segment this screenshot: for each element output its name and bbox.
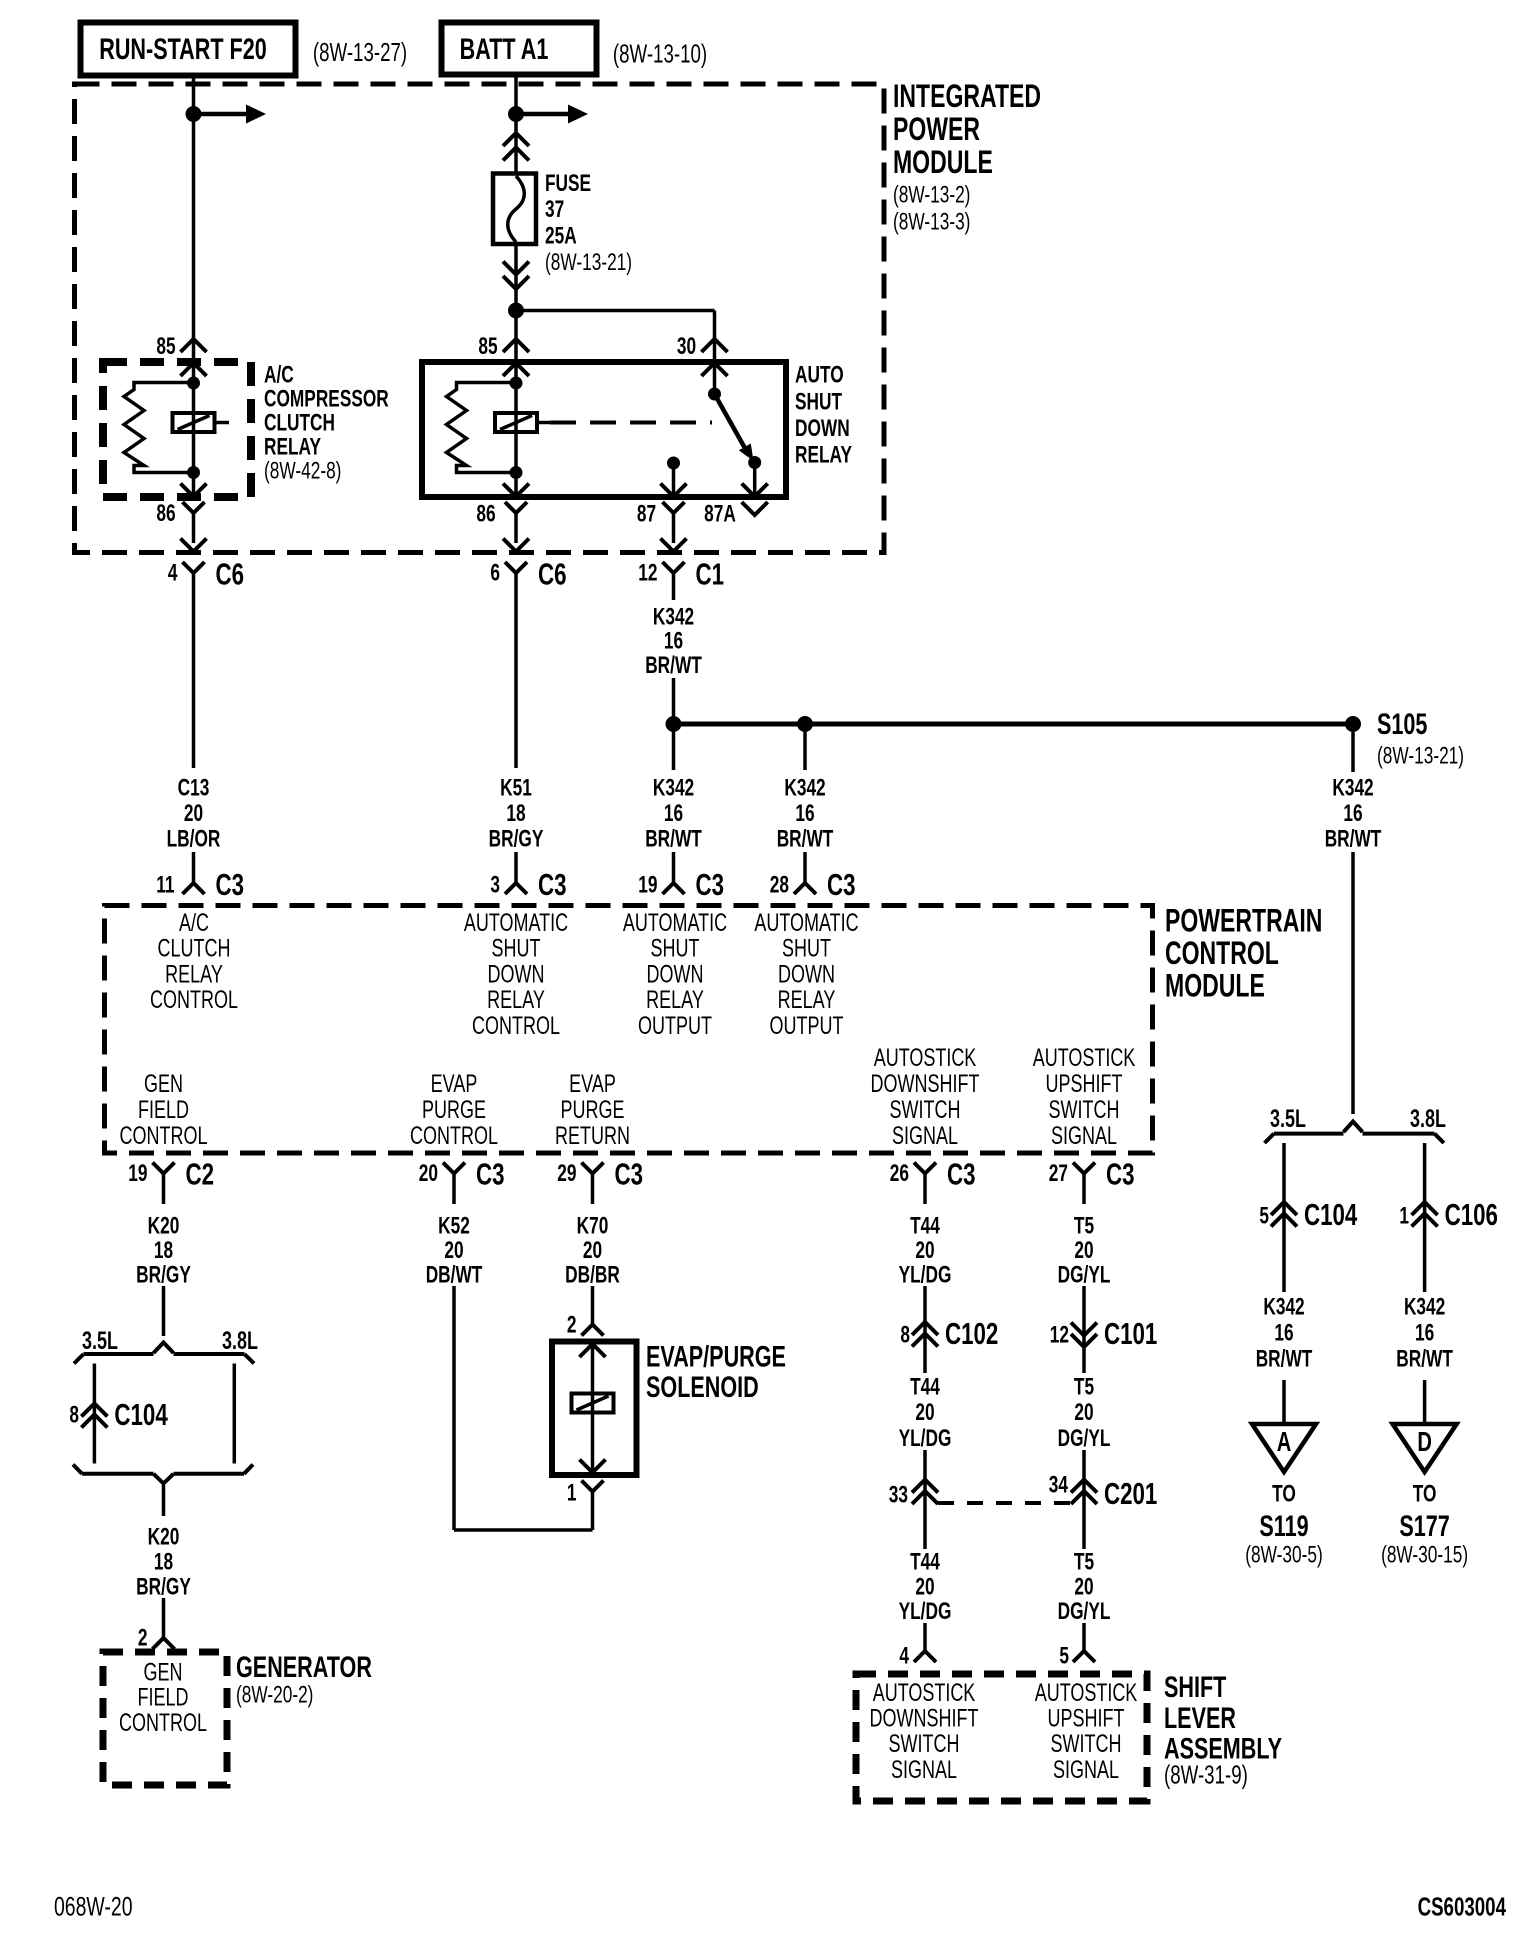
svg-text:20: 20	[1074, 1399, 1093, 1425]
svg-text:BR/GY: BR/GY	[136, 1574, 191, 1600]
pin 86 exit arrowhead	[503, 484, 529, 497]
svg-text:29: 29	[557, 1160, 576, 1186]
svg-text:20: 20	[444, 1237, 463, 1263]
A/C compressor clutch relay dashed box	[103, 362, 251, 497]
svg-text:CONTROL: CONTROL	[472, 1011, 560, 1040]
pin 86 connector (ASD)	[505, 502, 527, 513]
svg-text:INTEGRATED: INTEGRATED	[893, 78, 1041, 114]
pin 86 exit arrowhead	[181, 484, 207, 497]
svg-text:K52: K52	[438, 1213, 470, 1239]
svg-text:C3: C3	[216, 868, 245, 902]
off-page triangle A	[1252, 1424, 1316, 1472]
ASD coil wire	[514, 363, 518, 497]
svg-text:8: 8	[69, 1402, 79, 1428]
svg-text:8: 8	[900, 1322, 910, 1348]
auto shut down relay box	[422, 362, 786, 497]
wire K342 16 BR/WT branch 1	[672, 724, 676, 770]
svg-text:PURGE: PURGE	[561, 1095, 625, 1124]
svg-text:K51: K51	[500, 775, 532, 801]
svg-text:T44: T44	[910, 1374, 940, 1400]
svg-text:POWERTRAIN: POWERTRAIN	[1165, 903, 1322, 939]
svg-text:COMPRESSOR: COMPRESSOR	[264, 386, 389, 412]
svg-text:C104: C104	[114, 1398, 167, 1432]
switch arm with arrowhead	[715, 394, 747, 450]
wire from BATT A1 down through fuse to ASD relay pin 85	[514, 76, 518, 174]
svg-text:C3: C3	[476, 1157, 505, 1191]
svg-text:RELAY: RELAY	[264, 434, 321, 460]
wire ASD relay control: K51 18 BR/GY	[514, 600, 518, 768]
connector 8 C104	[81, 1403, 107, 1416]
junction node below fuse	[508, 303, 524, 319]
svg-text:12: 12	[638, 560, 657, 586]
svg-text:YL/DG: YL/DG	[899, 1262, 952, 1288]
svg-text:(8W-31-9): (8W-31-9)	[1164, 1759, 1248, 1789]
svg-text:C6: C6	[216, 557, 245, 591]
svg-text:RELAY: RELAY	[165, 959, 223, 988]
svg-text:RELAY: RELAY	[646, 985, 704, 1014]
svg-text:AUTO: AUTO	[795, 362, 844, 388]
svg-text:K70: K70	[577, 1213, 609, 1239]
svg-text:27: 27	[1049, 1160, 1068, 1186]
svg-text:RELAY: RELAY	[795, 442, 852, 468]
svg-text:C3: C3	[615, 1157, 644, 1191]
svg-text:T5: T5	[1074, 1374, 1094, 1400]
svg-text:T5: T5	[1074, 1549, 1094, 1575]
svg-text:C1: C1	[696, 557, 725, 591]
pin 87A chevron	[742, 502, 768, 515]
pin 87A node	[748, 456, 761, 469]
svg-text:6: 6	[490, 560, 500, 586]
solenoid coil	[572, 1394, 614, 1413]
svg-text:3.8L: 3.8L	[1410, 1104, 1446, 1133]
svg-text:A: A	[1277, 1427, 1292, 1458]
svg-text:FIELD: FIELD	[138, 1683, 189, 1712]
3.8L branch wire	[233, 1364, 237, 1464]
svg-text:YL/DG: YL/DG	[899, 1598, 952, 1624]
svg-text:3.8L: 3.8L	[222, 1326, 258, 1355]
svg-text:(8W-13-27): (8W-13-27)	[313, 37, 407, 67]
svg-text:(8W-30-5): (8W-30-5)	[1245, 1542, 1322, 1568]
svg-text:1: 1	[1399, 1203, 1409, 1229]
svg-text:MODULE: MODULE	[893, 144, 993, 180]
svg-text:1: 1	[567, 1480, 577, 1506]
svg-text:K20: K20	[148, 1524, 180, 1550]
svg-text:11: 11	[156, 872, 175, 898]
svg-text:28: 28	[770, 872, 789, 898]
svg-text:2: 2	[138, 1625, 148, 1651]
svg-text:C6: C6	[538, 557, 567, 591]
svg-text:16: 16	[1343, 800, 1362, 826]
svg-text:GENERATOR: GENERATOR	[236, 1649, 372, 1683]
svg-text:T44: T44	[910, 1213, 940, 1239]
svg-text:(8W-42-8): (8W-42-8)	[264, 458, 341, 484]
connector 33 C201	[912, 1480, 938, 1493]
svg-text:EVAP: EVAP	[431, 1069, 478, 1098]
svg-text:SWITCH: SWITCH	[889, 1729, 960, 1758]
svg-text:C106: C106	[1445, 1198, 1498, 1232]
svg-text:GEN: GEN	[144, 1069, 183, 1098]
svg-text:SOLENOID: SOLENOID	[646, 1369, 759, 1403]
svg-text:K342: K342	[653, 775, 694, 801]
svg-text:C3: C3	[827, 868, 856, 902]
svg-text:SWITCH: SWITCH	[1049, 1095, 1120, 1124]
relay coil wire	[192, 363, 196, 497]
solenoid coil wire	[591, 1342, 595, 1476]
wire from RUN-START F20 down to A/C relay pin 85	[192, 76, 196, 362]
svg-text:AUTOSTICK: AUTOSTICK	[873, 1678, 976, 1707]
svg-text:DOWN: DOWN	[488, 959, 545, 988]
pin 87 node	[667, 457, 680, 470]
svg-text:(8W-13-10): (8W-13-10)	[613, 38, 707, 68]
svg-text:DG/YL: DG/YL	[1058, 1425, 1111, 1451]
svg-text:DOWN: DOWN	[795, 415, 850, 441]
svg-text:CONTROL: CONTROL	[1165, 935, 1279, 971]
pin 87 connector	[663, 502, 685, 513]
wire K342 16 BR/WT branch 2	[803, 724, 807, 770]
splice bus wire to S105	[674, 722, 1354, 727]
svg-text:DB/WT: DB/WT	[426, 1262, 483, 1288]
svg-text:CONTROL: CONTROL	[119, 1708, 207, 1737]
arrow to other circuits	[194, 112, 249, 117]
svg-text:SWITCH: SWITCH	[890, 1095, 961, 1124]
coil-contact mechanical dashed link	[550, 421, 712, 425]
svg-text:5: 5	[1059, 1643, 1069, 1669]
svg-text:C3: C3	[947, 1157, 976, 1191]
svg-text:87A: 87A	[704, 501, 736, 527]
svg-text:12: 12	[1050, 1322, 1069, 1348]
svg-text:4: 4	[168, 560, 178, 586]
svg-text:EVAP: EVAP	[569, 1069, 616, 1098]
svg-text:C3: C3	[696, 868, 725, 902]
svg-text:K342: K342	[1332, 775, 1373, 801]
svg-text:UPSHIFT: UPSHIFT	[1048, 1704, 1125, 1733]
svg-text:C3: C3	[538, 868, 567, 902]
svg-text:A/C: A/C	[264, 362, 294, 388]
svg-text:16: 16	[664, 628, 683, 654]
pin 86 connector (A/C)	[183, 502, 205, 513]
relay coil	[173, 413, 215, 432]
svg-text:DOWNSHIFT: DOWNSHIFT	[871, 1069, 980, 1098]
svg-text:RETURN: RETURN	[555, 1121, 630, 1150]
connector double chevron below fuse	[503, 262, 529, 275]
svg-text:PURGE: PURGE	[422, 1095, 486, 1124]
connector 5 C104	[1271, 1202, 1297, 1215]
svg-text:C2: C2	[186, 1157, 215, 1191]
svg-text:DB/BR: DB/BR	[565, 1262, 620, 1288]
svg-text:25A: 25A	[545, 223, 577, 249]
svg-text:18: 18	[154, 1549, 173, 1575]
svg-text:20: 20	[1074, 1237, 1093, 1263]
svg-text:86: 86	[476, 501, 495, 527]
svg-text:(8W-13-21): (8W-13-21)	[545, 249, 632, 275]
svg-text:S119: S119	[1259, 1508, 1308, 1542]
svg-text:5: 5	[1259, 1203, 1269, 1229]
svg-text:CS603004: CS603004	[1418, 1891, 1507, 1921]
svg-text:BATT A1: BATT A1	[460, 31, 549, 65]
svg-text:BR/GY: BR/GY	[136, 1262, 191, 1288]
svg-text:POWER: POWER	[893, 111, 980, 147]
svg-text:BR/WT: BR/WT	[1256, 1346, 1313, 1372]
svg-text:(8W-13-3): (8W-13-3)	[893, 209, 970, 235]
integrated power module dashed box	[75, 84, 885, 553]
svg-text:K20: K20	[148, 1213, 180, 1239]
splice node 2	[797, 716, 813, 732]
svg-text:BR/WT: BR/WT	[1325, 826, 1382, 852]
evap/purge solenoid box	[552, 1342, 637, 1476]
wire branch to ASD pin 30	[516, 309, 715, 313]
svg-text:K342: K342	[1404, 1294, 1445, 1320]
svg-text:16: 16	[795, 800, 814, 826]
svg-text:18: 18	[154, 1237, 173, 1263]
svg-text:C201: C201	[1104, 1477, 1157, 1511]
svg-text:33: 33	[889, 1482, 908, 1508]
svg-text:(8W-20-2): (8W-20-2)	[236, 1682, 313, 1708]
connector 34 C201	[1071, 1480, 1097, 1493]
relay resistor	[124, 383, 194, 473]
wire A/C relay control: C13 20 LB/OR	[192, 600, 196, 768]
ASD resistor	[447, 383, 517, 473]
3.5L branch wire	[93, 1364, 97, 1464]
pin 30 entry arrowhead	[702, 363, 728, 376]
svg-text:SHUT: SHUT	[651, 934, 700, 963]
svg-text:20: 20	[419, 1160, 438, 1186]
svg-text:CONTROL: CONTROL	[150, 985, 238, 1014]
connector 1 C106	[1412, 1202, 1438, 1215]
svg-text:CLUTCH: CLUTCH	[158, 934, 231, 963]
svg-text:C101: C101	[1104, 1317, 1157, 1351]
power feed box BATT A1	[442, 23, 597, 75]
svg-text:CONTROL: CONTROL	[410, 1121, 498, 1150]
svg-text:SHUT: SHUT	[795, 389, 842, 415]
C201 dashed link	[938, 1501, 1072, 1505]
svg-text:RELAY: RELAY	[487, 985, 545, 1014]
svg-text:2: 2	[567, 1312, 577, 1338]
svg-text:BR/GY: BR/GY	[489, 826, 544, 852]
svg-text:K342: K342	[653, 604, 694, 630]
connector 12 C101	[1071, 1323, 1097, 1336]
svg-text:30: 30	[677, 333, 696, 359]
splice node	[666, 716, 682, 732]
splice S105	[1345, 716, 1361, 732]
junction node on BATT feed	[508, 106, 524, 122]
svg-text:C104: C104	[1304, 1198, 1357, 1232]
svg-text:EVAP/PURGE: EVAP/PURGE	[646, 1339, 786, 1373]
merge brace (bottom)	[82, 1472, 244, 1476]
svg-text:CONTROL: CONTROL	[120, 1121, 208, 1150]
svg-text:BR/WT: BR/WT	[777, 826, 834, 852]
3.5L branch wire (right)	[1282, 1143, 1286, 1292]
generator dashed box	[103, 1652, 227, 1785]
svg-text:20: 20	[1074, 1574, 1093, 1600]
switch common wire	[713, 363, 717, 394]
junction node on RUN-START feed	[186, 106, 202, 122]
pin 85 entry arrowhead	[503, 363, 529, 376]
svg-text:TO: TO	[1413, 1481, 1437, 1507]
svg-text:S177: S177	[1399, 1508, 1449, 1542]
svg-text:RUN-START F20: RUN-START F20	[99, 31, 267, 65]
pin 85 chevron	[181, 339, 207, 352]
svg-text:CLUTCH: CLUTCH	[264, 410, 335, 436]
svg-text:FUSE: FUSE	[545, 170, 591, 196]
svg-text:AUTOSTICK: AUTOSTICK	[1033, 1043, 1136, 1072]
shift lever assembly dashed box	[856, 1674, 1147, 1801]
svg-text:26: 26	[890, 1160, 909, 1186]
connector 8 C102	[912, 1322, 938, 1335]
svg-text:SIGNAL: SIGNAL	[1051, 1121, 1117, 1150]
svg-text:BR/WT: BR/WT	[645, 826, 702, 852]
3.8L branch wire (right)	[1423, 1143, 1427, 1292]
svg-text:RELAY: RELAY	[778, 985, 836, 1014]
svg-text:85: 85	[156, 333, 176, 359]
svg-text:AUTOSTICK: AUTOSTICK	[1035, 1678, 1138, 1707]
arrow to other circuits	[516, 112, 570, 117]
svg-text:19: 19	[638, 872, 657, 898]
svg-text:K342: K342	[1263, 1294, 1304, 1320]
svg-text:LB/OR: LB/OR	[167, 826, 221, 852]
wire to solenoid pin 1	[454, 1528, 593, 1532]
svg-text:20: 20	[583, 1237, 602, 1263]
svg-text:19: 19	[128, 1160, 147, 1186]
powertrain control module dashed box	[105, 906, 1153, 1154]
svg-text:20: 20	[915, 1237, 934, 1263]
svg-text:(8W-30-15): (8W-30-15)	[1381, 1542, 1468, 1568]
svg-text:SIGNAL: SIGNAL	[892, 1121, 958, 1150]
svg-text:S105: S105	[1377, 706, 1427, 740]
svg-text:OUTPUT: OUTPUT	[770, 1011, 844, 1040]
svg-text:DG/YL: DG/YL	[1058, 1262, 1111, 1288]
pin 85 entry arrowhead	[181, 363, 207, 376]
svg-text:20: 20	[915, 1399, 934, 1425]
svg-text:16: 16	[1274, 1320, 1293, 1346]
svg-text:16: 16	[1415, 1320, 1434, 1346]
power feed box RUN-START F20	[81, 23, 296, 76]
svg-text:AUTOSTICK: AUTOSTICK	[874, 1043, 977, 1072]
ASD relay coil	[495, 413, 537, 432]
svg-text:SHUT: SHUT	[492, 934, 541, 963]
svg-text:34: 34	[1049, 1472, 1069, 1498]
svg-text:3.5L: 3.5L	[82, 1326, 118, 1355]
svg-text:3.5L: 3.5L	[1270, 1104, 1306, 1133]
fuse 37 25A	[493, 174, 536, 245]
svg-text:OUTPUT: OUTPUT	[638, 1011, 712, 1040]
svg-text:DOWN: DOWN	[647, 959, 704, 988]
svg-text:UPSHIFT: UPSHIFT	[1046, 1069, 1123, 1098]
svg-text:TO: TO	[1272, 1481, 1296, 1507]
svg-text:DG/YL: DG/YL	[1058, 1598, 1111, 1624]
svg-text:BR/WT: BR/WT	[1396, 1346, 1453, 1372]
svg-text:16: 16	[664, 800, 683, 826]
svg-text:C3: C3	[1106, 1157, 1135, 1191]
svg-text:AUTOMATIC: AUTOMATIC	[754, 908, 858, 937]
svg-text:DOWNSHIFT: DOWNSHIFT	[870, 1704, 979, 1733]
wire S105 to engine brace: K342 16 BR/WT	[1351, 732, 1355, 772]
svg-text:FIELD: FIELD	[138, 1095, 189, 1124]
svg-text:4: 4	[899, 1643, 909, 1669]
svg-text:SWITCH: SWITCH	[1051, 1729, 1122, 1758]
svg-text:86: 86	[156, 500, 175, 526]
svg-text:SHIFT: SHIFT	[1164, 1669, 1226, 1703]
svg-text:3: 3	[490, 872, 500, 898]
svg-text:(8W-13-21): (8W-13-21)	[1377, 743, 1464, 769]
svg-text:K342: K342	[784, 775, 825, 801]
svg-text:T5: T5	[1074, 1213, 1094, 1239]
svg-text:YL/DG: YL/DG	[899, 1425, 952, 1451]
svg-text:A/C: A/C	[179, 908, 209, 937]
svg-text:SIGNAL: SIGNAL	[891, 1755, 957, 1784]
svg-text:SIGNAL: SIGNAL	[1053, 1755, 1119, 1784]
svg-text:AUTOMATIC: AUTOMATIC	[464, 908, 568, 937]
svg-text:068W-20: 068W-20	[54, 1892, 133, 1922]
svg-text:18: 18	[506, 800, 525, 826]
svg-text:T44: T44	[910, 1549, 940, 1575]
svg-text:DOWN: DOWN	[778, 959, 835, 988]
svg-text:MODULE: MODULE	[1165, 968, 1265, 1004]
svg-text:BR/WT: BR/WT	[645, 652, 702, 678]
svg-text:20: 20	[915, 1574, 934, 1600]
svg-text:AUTOMATIC: AUTOMATIC	[623, 908, 727, 937]
svg-text:C102: C102	[945, 1317, 998, 1351]
svg-text:(8W-13-2): (8W-13-2)	[893, 182, 970, 208]
svg-text:20: 20	[184, 800, 203, 826]
connector double chevron above fuse	[503, 133, 529, 146]
svg-text:37: 37	[545, 196, 564, 222]
svg-text:C13: C13	[178, 775, 210, 801]
off-page triangle D	[1393, 1424, 1457, 1472]
svg-text:85: 85	[478, 333, 498, 359]
svg-text:SHUT: SHUT	[782, 934, 831, 963]
svg-text:87: 87	[637, 501, 656, 527]
svg-text:LEVER: LEVER	[1164, 1700, 1236, 1734]
svg-text:D: D	[1417, 1427, 1432, 1458]
